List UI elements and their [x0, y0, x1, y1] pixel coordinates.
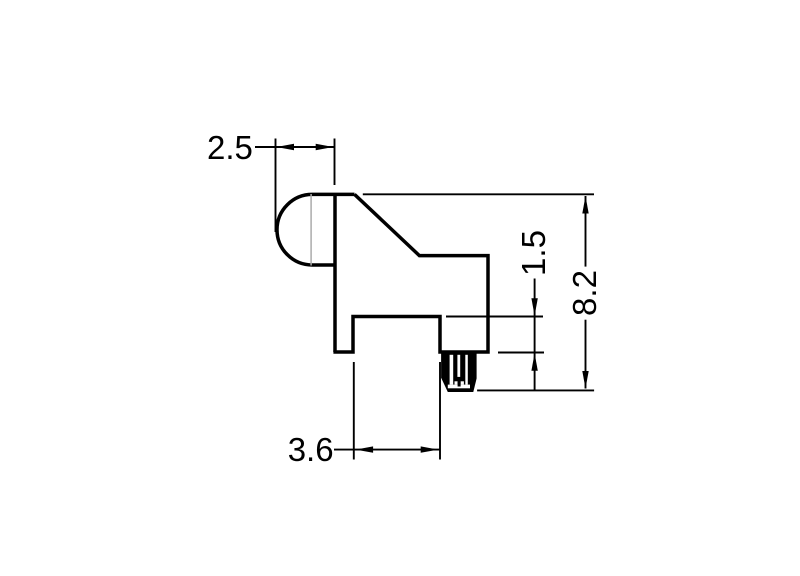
dimension 2.5 arrow left	[277, 144, 295, 150]
pin bottom white band	[448, 385, 470, 389]
dimension 1.5 extension line upper	[446, 316, 543, 318]
dimension 2.5 extension line right	[334, 139, 336, 186]
lens junction line	[310, 194, 312, 266]
pin silhouette	[441, 351, 477, 392]
dimension 8.2 top extension line	[363, 193, 594, 195]
dimension 1.5 arrow up	[531, 353, 537, 371]
svg-text:3.6: 3.6	[288, 431, 334, 468]
pin slot left	[450, 355, 454, 385]
dimension 3.6 arrow right	[421, 446, 439, 452]
dimension 2.5 line	[255, 146, 335, 148]
dimension 1.5 arrow down	[531, 298, 537, 316]
svg-text:2.5: 2.5	[207, 129, 253, 166]
pin under-bar white left	[455, 381, 458, 384]
svg-text:1.5: 1.5	[515, 230, 552, 276]
body front face line	[333, 194, 337, 352]
dimension 2.5 extension line left	[275, 139, 277, 233]
dimension 2.5 arrow right	[316, 144, 334, 150]
dimension 3.6 extension line left	[353, 362, 355, 460]
dimension 3.6 extension line right	[439, 362, 441, 460]
svg-text:8.2: 8.2	[566, 270, 603, 316]
dimension 8.2 line upper	[585, 196, 587, 267]
pin slot right	[465, 355, 468, 385]
body outline	[333, 194, 488, 352]
dimension 3.6 line	[334, 449, 440, 451]
dimension 1.5 line	[534, 279, 536, 391]
dimension 8.2 line lower	[585, 320, 587, 389]
dimension 8.2 arrow down	[582, 371, 588, 389]
LED dome lens outline	[277, 194, 355, 265]
pin center stub	[458, 381, 461, 386]
dimension 3.6 arrow left	[356, 446, 374, 452]
dimension 8.2 bottom extension line	[477, 389, 594, 391]
dimension 8.2 arrow up	[582, 196, 588, 214]
pin under-bar white right	[461, 381, 464, 384]
dimension 1.5 extension line lower	[498, 352, 544, 354]
pin slot center	[457, 355, 460, 377]
